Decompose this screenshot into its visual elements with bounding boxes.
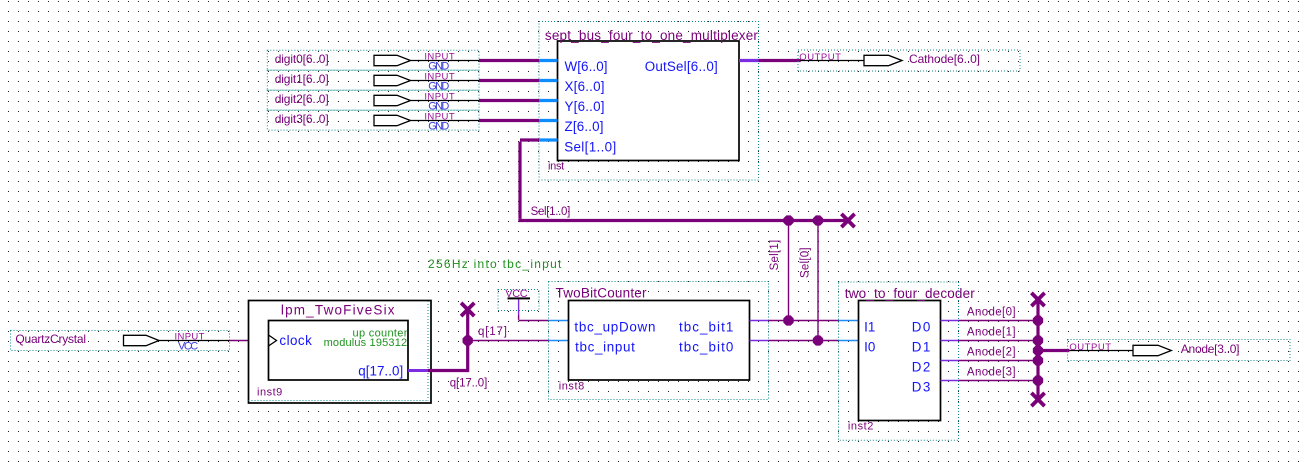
mux port stub X[6..0] bbox=[539, 79, 558, 82]
junction Anode[1] bbox=[1033, 335, 1043, 345]
clock input chevron marker bbox=[269, 335, 277, 346]
svg-text:inst8: inst8 bbox=[559, 381, 585, 393]
input pin symbol digit3[6..0] bbox=[374, 115, 411, 125]
selection box around input pin digit1[6..0] bbox=[267, 70, 479, 90]
bus wire digit3 to mux bbox=[479, 119, 539, 122]
svg-text:tbc_bit0: tbc_bit0 bbox=[679, 340, 733, 355]
svg-text:Anode[3..0]: Anode[3..0] bbox=[1181, 342, 1240, 356]
svg-text:Y[6..0]: Y[6..0] bbox=[565, 99, 605, 114]
block symbol TwoBitCounter (inst8) bbox=[569, 301, 750, 381]
mux port stub Z[6..0] bbox=[539, 119, 558, 122]
svg-text:TwoBitCounter: TwoBitCounter bbox=[556, 286, 648, 301]
svg-text:clock: clock bbox=[279, 333, 312, 348]
selection box around multiplexer instance inst bbox=[539, 22, 759, 181]
svg-text:D2: D2 bbox=[912, 360, 931, 375]
svg-text:Anode[3]: Anode[3] bbox=[967, 367, 1016, 379]
svg-text:Z[6..0]: Z[6..0] bbox=[565, 119, 604, 134]
junction Anode[3] bbox=[1033, 375, 1043, 385]
mux port stub Y[6..0] bbox=[539, 99, 558, 102]
dangling-end X bottom of Anode bus bbox=[1031, 393, 1044, 406]
svg-text:lpm_TwoFiveSix: lpm_TwoFiveSix bbox=[281, 303, 395, 318]
block symbol two_to_four_decoder (inst2) bbox=[859, 301, 941, 421]
bus wire digit1 to mux bbox=[479, 79, 539, 82]
svg-text:modulus 195312: modulus 195312 bbox=[324, 337, 408, 349]
bus wire digit0 to mux bbox=[479, 59, 539, 62]
bus wire OutSel to Cathode pin bbox=[759, 59, 801, 62]
VCC stem wire bbox=[518, 299, 520, 315]
output pin symbol Cathode[6..0] bbox=[800, 60, 864, 62]
wire tbc_bit1 to decoder I1 bbox=[769, 320, 839, 322]
svg-text:two_to_four_decoder: two_to_four_decoder bbox=[845, 286, 976, 301]
svg-text:OUTPUT: OUTPUT bbox=[1069, 342, 1111, 353]
dangling-end X of q bus bbox=[461, 303, 474, 316]
svg-text:D1: D1 bbox=[912, 340, 931, 355]
selection box around decoder instance inst2 bbox=[839, 282, 959, 440]
junction Anode[2] bbox=[1033, 355, 1043, 365]
junction on Sel bus at Sel[0] tap bbox=[813, 215, 823, 225]
mux output port stub OutSel[6..0] bbox=[739, 59, 759, 62]
wire Anode[0] from decoder D0 bbox=[959, 320, 1039, 322]
svg-text:q[17..0]: q[17..0] bbox=[450, 378, 488, 390]
lpm counter outer frame inst9 bbox=[249, 301, 432, 404]
decoder D3 output stub bbox=[941, 380, 959, 382]
bus wire digit2 to mux bbox=[479, 99, 539, 102]
svg-text:inst9: inst9 bbox=[257, 386, 282, 398]
wire Sel[1] vertical bbox=[788, 221, 790, 321]
wire q[17] to tbc_input bbox=[468, 340, 549, 342]
wire Sel[0] vertical bbox=[817, 221, 819, 341]
svg-text:digit3[6..0]: digit3[6..0] bbox=[275, 112, 329, 126]
svg-text:256Hz into tbc_input: 256Hz into tbc_input bbox=[428, 257, 562, 271]
bus wire Anode[3..0] vertical collector bbox=[1036, 300, 1039, 400]
bus wire q[17..0] from lpm bbox=[428, 369, 468, 372]
decoder D0 output stub bbox=[941, 320, 959, 322]
wire QuartzCrystal to clock bbox=[230, 340, 249, 342]
svg-text:Sel[1..0]: Sel[1..0] bbox=[531, 206, 571, 218]
wire Anode[3] from decoder D3 bbox=[959, 380, 1039, 382]
decoder I0 input stub bbox=[839, 340, 859, 342]
svg-text:W[6..0]: W[6..0] bbox=[565, 59, 608, 74]
block symbol U-mux sept_bus_four_to_one_multiplexer (inst) bbox=[558, 41, 740, 161]
svg-text:Anode[0]: Anode[0] bbox=[967, 307, 1016, 319]
svg-text:D0: D0 bbox=[912, 320, 931, 335]
svg-text:digit0[6..0]: digit0[6..0] bbox=[275, 52, 329, 66]
input pin symbol digit1[6..0] bbox=[374, 75, 411, 85]
svg-text:sept_bus_four_to_one_multiplex: sept_bus_four_to_one_multiplexer bbox=[545, 28, 759, 43]
svg-text:QuartzCrystal: QuartzCrystal bbox=[15, 332, 86, 346]
lpm counter inner symbol box bbox=[269, 321, 409, 381]
junction Anode output tap bbox=[1033, 345, 1043, 355]
svg-text:q[17]: q[17] bbox=[478, 326, 507, 338]
svg-text:inst2: inst2 bbox=[848, 421, 874, 433]
svg-text:X[6..0]: X[6..0] bbox=[565, 79, 605, 94]
svg-text:D3: D3 bbox=[912, 380, 931, 395]
mux port stub Sel[1..0] bbox=[539, 138, 558, 141]
selection box around input pin digit2[6..0] bbox=[267, 90, 479, 110]
svg-text:OutSel[6..0]: OutSel[6..0] bbox=[645, 59, 718, 74]
dangling-end X top of Anode bus bbox=[1031, 293, 1044, 306]
wire tbc_bit0 to decoder I0 bbox=[769, 340, 839, 342]
clock input stub of lpm bbox=[249, 340, 269, 342]
junction Sel[1] on tbc_bit1 wire bbox=[783, 315, 793, 325]
svg-text:OUTPUT: OUTPUT bbox=[799, 52, 841, 63]
svg-text:GND: GND bbox=[428, 121, 449, 133]
svg-text:Anode[1]: Anode[1] bbox=[967, 327, 1016, 339]
wire VCC to tbc_upDown bbox=[519, 320, 549, 322]
svg-text:I1: I1 bbox=[864, 320, 875, 335]
output pin symbol Anode[3..0] bbox=[1069, 350, 1133, 352]
svg-text:digit2[6..0]: digit2[6..0] bbox=[275, 92, 329, 106]
svg-text:inst: inst bbox=[548, 161, 564, 173]
wire Anode[2] from decoder D2 bbox=[959, 360, 1039, 362]
input pin symbol QuartzCrystal bbox=[124, 335, 160, 345]
decoder D2 output stub bbox=[941, 360, 959, 362]
svg-text:Anode[2]: Anode[2] bbox=[967, 347, 1016, 359]
bus wire Sel[1..0] from mux Sel port bbox=[520, 138, 539, 141]
junction Anode[0] bbox=[1033, 315, 1043, 325]
svg-text:tbc_bit1: tbc_bit1 bbox=[679, 320, 733, 335]
mux port stub W[6..0] bbox=[539, 59, 558, 62]
tbc_bit1 output stub bbox=[750, 320, 769, 322]
decoder D1 output stub bbox=[941, 340, 959, 342]
lpm q output stub bbox=[408, 369, 428, 372]
input pin symbol digit0[6..0] bbox=[374, 55, 411, 65]
bus wire Anode bus to output pin bbox=[1038, 349, 1069, 352]
tbc_upDown stub bbox=[549, 320, 569, 322]
selection box around VCC symbol bbox=[498, 290, 539, 311]
input pin symbol digit2[6..0] bbox=[374, 95, 411, 105]
selection box around lpm instance inst9 bbox=[249, 301, 429, 401]
wire Anode[1] from decoder D1 bbox=[959, 340, 1039, 342]
selection box around input pin digit0[6..0] bbox=[267, 50, 479, 70]
tbc_bit0 output stub bbox=[750, 340, 769, 342]
svg-text:Sel[1..0]: Sel[1..0] bbox=[564, 139, 616, 154]
svg-text:Sel[0]: Sel[0] bbox=[800, 247, 812, 278]
svg-text:I0: I0 bbox=[864, 340, 875, 355]
svg-text:Cathode[6..0]: Cathode[6..0] bbox=[909, 52, 980, 66]
svg-text:VCC: VCC bbox=[178, 341, 198, 353]
selection box around input pin digit3[6..0] bbox=[267, 110, 479, 130]
selection box around output pin Cathode[6..0] bbox=[798, 50, 1020, 71]
selection box around TwoBitCounter instance inst8 bbox=[549, 282, 769, 400]
dangling-end X of Sel bus bbox=[841, 214, 854, 227]
tbc_input stub bbox=[549, 340, 569, 342]
selection box around input pin QuartzCrystal bbox=[11, 331, 230, 351]
svg-text:tbc_upDown: tbc_upDown bbox=[574, 320, 655, 335]
svg-text:digit1[6..0]: digit1[6..0] bbox=[275, 72, 329, 86]
junction Sel[0] on tbc_bit0 wire bbox=[813, 335, 823, 345]
junction on Sel bus at Sel[1] tap bbox=[783, 215, 793, 225]
svg-text:q[17..0]: q[17..0] bbox=[358, 364, 403, 379]
decoder I1 input stub bbox=[839, 320, 859, 322]
svg-text:Sel[1]: Sel[1] bbox=[769, 240, 781, 271]
junction on q bus at q[17] tap bbox=[463, 335, 473, 345]
svg-text:tbc_input: tbc_input bbox=[575, 340, 635, 355]
selection box around output pin Anode[3..0] bbox=[1068, 340, 1291, 361]
